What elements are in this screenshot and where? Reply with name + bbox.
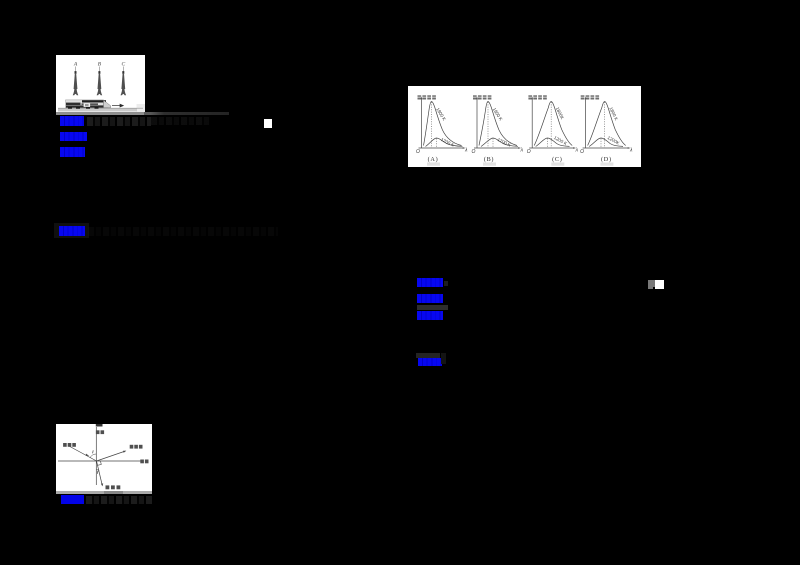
light corner patch xyxy=(137,104,146,112)
reflected ray xyxy=(97,451,126,461)
normal line xyxy=(95,427,97,485)
figure F3: light refraction diagram xyxy=(56,424,152,494)
tower C xyxy=(121,67,127,96)
faint dark text after row 1 xyxy=(87,117,151,126)
blue label row 3 (right column) xyxy=(417,311,443,321)
svg-text:(C): (C) xyxy=(552,156,562,163)
figure F1: towers and train illustration xyxy=(56,55,145,112)
dark band above right row 4 xyxy=(416,353,440,358)
graph (B) xyxy=(472,95,524,165)
interface line xyxy=(58,460,141,462)
refracted ray xyxy=(97,461,103,486)
blue underlined link under figure F3 xyxy=(61,495,84,504)
faint halo behind left row 4 xyxy=(54,223,89,238)
tower A xyxy=(73,67,79,96)
refraction angle arc xyxy=(97,469,99,471)
motion arrow xyxy=(112,104,123,107)
graph (A) xyxy=(416,95,468,165)
small white square cell remnant xyxy=(264,119,272,128)
faint dark text after row 4 xyxy=(88,227,278,236)
blue label row 4 (right column) xyxy=(418,358,442,367)
blue label row 2 (left column) xyxy=(60,132,87,142)
svg-text:(D): (D) xyxy=(601,156,612,163)
svg-text:(B): (B) xyxy=(484,156,494,163)
blue label row 1 (right column) xyxy=(417,278,443,287)
incidence angle arc xyxy=(90,454,96,458)
gray text remnant between rows xyxy=(417,305,448,311)
svg-text:λ: λ xyxy=(629,148,633,154)
shadow stub right of figure F1 xyxy=(144,112,229,115)
faint mark right of row 4 xyxy=(441,353,446,364)
blue label row 1 (left column) xyxy=(60,116,84,126)
label: refracted ray xyxy=(106,485,121,489)
tiny icon: gray part xyxy=(648,280,655,287)
figure F2: four blackbody radiation graphs xyxy=(408,86,641,167)
svg-text:O: O xyxy=(527,149,531,155)
blue label row 3 (left column) xyxy=(60,147,85,157)
svg-text:(A): (A) xyxy=(428,156,439,163)
svg-text:λ: λ xyxy=(520,148,524,154)
shadow strip under figure F1 xyxy=(56,112,145,115)
blue label row 4 (left column) xyxy=(59,226,85,236)
right angle mark xyxy=(98,461,102,465)
train xyxy=(66,100,111,109)
svg-text:O: O xyxy=(580,149,584,155)
graph (D) xyxy=(580,95,633,165)
darker patch in F3 shadow strip xyxy=(104,491,123,494)
tower B xyxy=(97,67,103,96)
svg-text:λ: λ xyxy=(575,148,579,154)
svg-text:λ: λ xyxy=(464,148,468,154)
svg-text:O: O xyxy=(416,149,420,155)
shadow strip under figure F3 xyxy=(56,491,152,494)
fainter dark text tail of row 1 xyxy=(151,117,209,125)
blue label row 2 (right column) xyxy=(417,294,443,303)
svg-text:O: O xyxy=(472,149,476,155)
graph (C) xyxy=(527,95,579,165)
incident ray xyxy=(68,446,97,462)
label: normal (fa xian) xyxy=(96,430,104,434)
ground band xyxy=(58,108,137,111)
faint dark text after link xyxy=(86,496,152,504)
label: interface (jie mian) xyxy=(140,460,148,464)
tiny icon: white part xyxy=(655,280,664,289)
label: incident ray xyxy=(63,443,76,447)
dark tail after right row 1 xyxy=(444,281,448,286)
tiny icon: gray tail xyxy=(648,287,653,289)
label: reflected ray xyxy=(130,445,143,449)
top mark on normal xyxy=(96,424,103,427)
